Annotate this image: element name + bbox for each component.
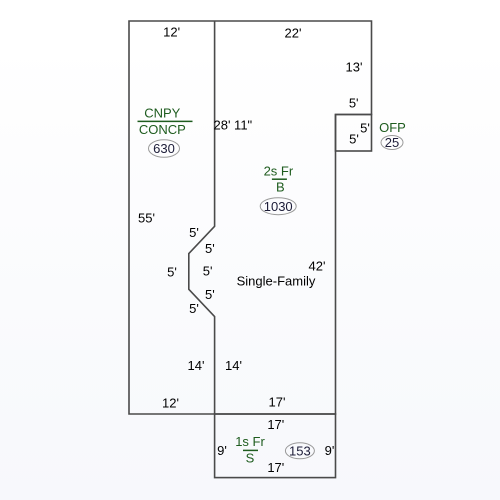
ellipse 1030: [260, 198, 296, 215]
wall main outline: [129, 21, 372, 414]
svg-text:5': 5': [167, 265, 177, 280]
svg-text:13': 13': [346, 60, 363, 75]
svg-text:CNPY: CNPY: [144, 105, 180, 120]
svg-text:9': 9': [325, 443, 335, 458]
svg-text:9': 9': [217, 443, 227, 458]
wall interior divider with zigzag: [189, 21, 215, 414]
svg-text:5': 5': [189, 225, 199, 240]
svg-text:22': 22': [285, 26, 302, 41]
wall bottom box: [215, 414, 336, 478]
svg-text:17': 17': [267, 417, 284, 432]
wall OFP box: [336, 115, 372, 152]
svg-text:5': 5': [205, 241, 215, 256]
svg-text:Single-Family: Single-Family: [237, 274, 316, 289]
svg-text:17': 17': [269, 395, 286, 410]
svg-text:12': 12': [162, 396, 179, 411]
ellipse 25: [381, 136, 403, 150]
svg-text:5': 5': [349, 132, 359, 147]
svg-text:5': 5': [205, 287, 215, 302]
svg-text:5': 5': [349, 96, 359, 111]
svg-text:B: B: [276, 180, 285, 195]
svg-text:25: 25: [385, 135, 399, 150]
svg-text:1s Fr: 1s Fr: [235, 434, 265, 449]
svg-text:55': 55': [138, 211, 155, 226]
fraction bar 1sFr/S: [243, 449, 258, 451]
svg-text:CONCP: CONCP: [139, 122, 186, 137]
svg-text:2s Fr: 2s Fr: [264, 164, 294, 179]
svg-text:5': 5': [203, 264, 213, 279]
svg-text:630: 630: [153, 141, 175, 156]
svg-text:S: S: [246, 450, 255, 465]
svg-text:28' 11": 28' 11": [214, 118, 253, 133]
svg-text:5': 5': [360, 121, 370, 136]
svg-text:1030: 1030: [264, 199, 293, 214]
ellipse 153: [285, 443, 314, 459]
svg-text:12': 12': [163, 25, 180, 40]
svg-text:5': 5': [189, 301, 199, 316]
svg-text:17': 17': [267, 460, 284, 475]
fraction bar CNPY/CONCP: [138, 120, 193, 122]
fraction bar 2sFr/B: [272, 178, 287, 180]
ellipse 630: [149, 140, 180, 157]
svg-text:OFP: OFP: [379, 120, 406, 135]
svg-text:14': 14': [188, 358, 205, 373]
svg-text:14': 14': [225, 358, 242, 373]
svg-text:42': 42': [309, 259, 326, 274]
svg-text:153: 153: [289, 443, 311, 458]
